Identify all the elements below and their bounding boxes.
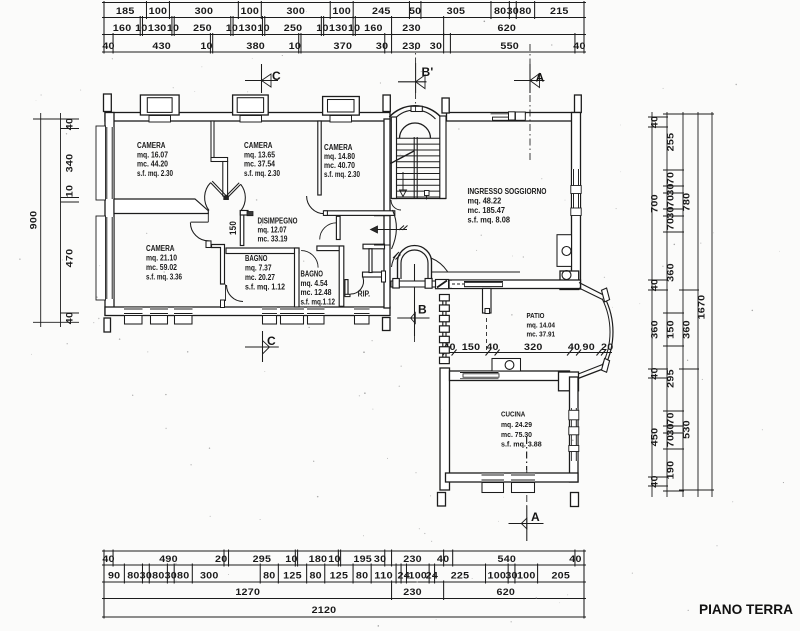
svg-text:10: 10 bbox=[257, 23, 269, 33]
svg-text:150: 150 bbox=[666, 320, 676, 339]
svg-text:mc. 59.02: mc. 59.02 bbox=[146, 263, 177, 272]
svg-text:C: C bbox=[267, 334, 276, 348]
left dim line 900 bbox=[40, 113, 42, 327]
door arc camera 21.10 bbox=[190, 223, 208, 241]
door leaf bagno 7.37 bbox=[225, 285, 227, 302]
stair side walls bbox=[391, 117, 396, 199]
entry axis line through arch bbox=[414, 264, 416, 302]
svg-text:1670: 1670 bbox=[697, 295, 707, 320]
door jamb camera 21.10 bbox=[206, 241, 211, 248]
right dim line bbox=[711, 112, 713, 497]
svg-text:185: 185 bbox=[116, 6, 135, 16]
svg-text:30: 30 bbox=[140, 571, 152, 581]
door arc bagno 7.37 bbox=[227, 285, 244, 302]
cucina top wall window bbox=[460, 372, 499, 381]
patio dashed boundary bbox=[486, 318, 488, 352]
svg-text:10: 10 bbox=[226, 23, 238, 33]
fence post bbox=[440, 357, 450, 363]
svg-text:BAGNO: BAGNO bbox=[301, 270, 324, 279]
tick bbox=[33, 118, 79, 120]
svg-text:30: 30 bbox=[165, 571, 177, 581]
svg-text:30: 30 bbox=[505, 571, 517, 581]
corridor right wall bbox=[240, 211, 244, 246]
svg-text:370: 370 bbox=[334, 41, 353, 51]
window sill cucina top bbox=[463, 374, 499, 377]
tick bbox=[61, 197, 80, 199]
door hinge post dark bbox=[224, 196, 229, 200]
cucina bottom wall window 1 bbox=[482, 474, 505, 482]
svg-text:130: 130 bbox=[329, 23, 348, 33]
fence post bbox=[440, 347, 450, 353]
svg-text:100: 100 bbox=[409, 571, 428, 581]
dimension line bottom bbox=[102, 616, 586, 618]
svg-text:24: 24 bbox=[426, 571, 438, 581]
svg-text:mq. 14.04: mq. 14.04 bbox=[527, 321, 556, 330]
svg-text:540: 540 bbox=[498, 554, 517, 564]
svg-text:40: 40 bbox=[568, 342, 580, 352]
slashes near arch left bbox=[393, 253, 398, 258]
cucina right exterior wall bbox=[570, 377, 579, 482]
entry axis arrow into disimpegno bbox=[371, 229, 407, 231]
svg-text:mq. 21.10: mq. 21.10 bbox=[146, 254, 177, 263]
mullion block bbox=[569, 427, 579, 435]
svg-text:30: 30 bbox=[374, 554, 386, 564]
interior wall: camera 16.07 / camera 13.65 divider bbox=[211, 121, 214, 159]
svg-text:80: 80 bbox=[177, 571, 189, 581]
svg-text:360: 360 bbox=[682, 320, 692, 339]
svg-text:90: 90 bbox=[108, 571, 120, 581]
svg-text:450: 450 bbox=[650, 428, 660, 447]
svg-text:360: 360 bbox=[666, 263, 676, 282]
fence post bbox=[440, 295, 450, 301]
svg-text:130: 130 bbox=[148, 23, 167, 33]
svg-text:70: 70 bbox=[666, 195, 676, 207]
svg-text:CAMERA: CAMERA bbox=[146, 244, 175, 253]
svg-text:B': B' bbox=[422, 65, 434, 79]
svg-text:230: 230 bbox=[402, 41, 421, 51]
ingresso bottom wall window bbox=[464, 281, 503, 289]
svg-text:205: 205 bbox=[551, 571, 570, 581]
svg-text:mc. 33.19: mc. 33.19 bbox=[258, 235, 288, 244]
top chain row 1: 185 100 300 100 300 100 245 50 305 80 30 80 215 bbox=[103, 1, 105, 19]
svg-text:100: 100 bbox=[149, 6, 168, 16]
cucina corner pillar bottom-left bbox=[438, 493, 446, 507]
dimension line top bbox=[102, 2, 586, 4]
svg-text:mq. 14.80: mq. 14.80 bbox=[324, 152, 355, 161]
svg-text:620: 620 bbox=[497, 587, 516, 597]
mullion block bbox=[569, 410, 579, 420]
patio curved glass wall bbox=[605, 297, 613, 367]
svg-text:A: A bbox=[536, 71, 545, 85]
window mullion block bbox=[571, 186, 581, 194]
top wall window 3 (bay) bbox=[323, 97, 360, 116]
door arc bagno 4.54 bbox=[301, 251, 318, 268]
svg-text:RIP.: RIP. bbox=[358, 290, 371, 299]
corner pillar bottom-right of left wing bbox=[383, 318, 391, 331]
fence post bbox=[440, 326, 450, 332]
svg-text:230: 230 bbox=[403, 554, 422, 564]
section marker C bbox=[261, 64, 263, 93]
entrance door jambs bbox=[374, 215, 391, 217]
bottom chain row 3: 1270 230 620 bbox=[103, 581, 105, 601]
svg-text:80: 80 bbox=[263, 571, 275, 581]
svg-text:40: 40 bbox=[65, 118, 75, 130]
double slash ticks on entry axis bbox=[399, 226, 404, 231]
svg-text:A: A bbox=[531, 510, 540, 524]
section marker A bbox=[526, 506, 528, 541]
corner pillar bottom-left bbox=[104, 318, 111, 332]
window mullion block bbox=[571, 208, 581, 216]
top chain row 3: 40 430 10 380 10 370 30 230 30 550 40 bbox=[103, 33, 105, 54]
entrance horseshoe arch outer bbox=[398, 246, 432, 280]
cucina bottom wall bbox=[446, 473, 579, 482]
corner pillar left of ingresso top wall bbox=[442, 98, 449, 113]
stair break line diagonal bbox=[391, 151, 415, 164]
svg-text:s.f. mq.1.12: s.f. mq.1.12 bbox=[301, 298, 336, 307]
svg-text:295: 295 bbox=[253, 554, 272, 564]
porch pillar 1 bbox=[393, 279, 400, 289]
patio dimension line: 40 150 40 320 40 90 20 bbox=[443, 352, 612, 354]
dimension line top bbox=[102, 17, 586, 19]
entrance door swing arc bbox=[392, 210, 397, 249]
closet hall top wall bbox=[363, 244, 385, 249]
stair outer arch bbox=[389, 106, 441, 117]
closet divider wall bbox=[369, 249, 372, 273]
svg-text:80: 80 bbox=[127, 571, 139, 581]
svg-text:70: 70 bbox=[666, 435, 676, 447]
svg-text:70: 70 bbox=[666, 218, 676, 230]
svg-text:380: 380 bbox=[246, 41, 265, 51]
svg-text:s.f. mq. 2.30: s.f. mq. 2.30 bbox=[324, 170, 360, 179]
svg-text:CAMERA: CAMERA bbox=[244, 141, 273, 150]
svg-text:mc. 44.20: mc. 44.20 bbox=[137, 160, 168, 169]
svg-text:40: 40 bbox=[650, 475, 660, 487]
section marker A bbox=[529, 64, 531, 93]
svg-text:430: 430 bbox=[152, 41, 171, 51]
svg-text:700: 700 bbox=[650, 194, 660, 213]
tick bbox=[61, 201, 80, 203]
corner pillar top-right of left wing bbox=[383, 95, 390, 112]
svg-text:225: 225 bbox=[451, 571, 470, 581]
disimpegno/hall wall with door bbox=[336, 216, 340, 239]
window sill left B bbox=[96, 216, 106, 300]
double door arcs bbox=[205, 183, 211, 211]
cucina top wall bbox=[450, 371, 570, 381]
svg-text:230: 230 bbox=[403, 587, 422, 597]
stair direction arrow (open) bbox=[400, 190, 407, 197]
left wing: right exterior wall bbox=[384, 119, 390, 308]
interior wall: camera 13.65 / camera 14.80 divider bbox=[318, 121, 321, 195]
svg-text:550: 550 bbox=[500, 41, 519, 51]
svg-text:CAMERA: CAMERA bbox=[324, 143, 353, 152]
svg-text:100: 100 bbox=[332, 6, 351, 16]
bagno 7.37 right wall / bagno 4.54 left wall bbox=[295, 248, 300, 307]
corner pillar top-right of ingresso bbox=[575, 95, 582, 113]
svg-text:30: 30 bbox=[507, 6, 519, 16]
counter box with sink circle bbox=[492, 359, 521, 372]
svg-text:mq. 12.07: mq. 12.07 bbox=[258, 226, 287, 235]
arch keystone block bbox=[411, 106, 422, 111]
svg-text:110: 110 bbox=[374, 571, 393, 581]
arch sketch flourish bbox=[431, 258, 448, 272]
svg-text:40: 40 bbox=[486, 342, 498, 352]
section marker B' bbox=[415, 63, 417, 93]
svg-text:mc. 12.48: mc. 12.48 bbox=[301, 288, 332, 297]
section line A vertical dash-dot top bbox=[529, 95, 531, 160]
fence post bbox=[440, 305, 450, 311]
under-stair door arc bbox=[391, 200, 401, 210]
svg-text:190: 190 bbox=[666, 461, 676, 480]
bottom chain row 1: 40 490 20 295 10 180 10 195 30 230 40 540 40 bbox=[103, 550, 105, 567]
svg-text:470: 470 bbox=[65, 249, 75, 268]
porch corner post with diagonal bbox=[436, 280, 449, 289]
dimension line top bbox=[102, 51, 586, 53]
porch left wall stub bbox=[382, 271, 386, 282]
svg-text:245: 245 bbox=[372, 6, 391, 16]
step line in ingresso bbox=[432, 271, 520, 273]
svg-text:mc. 75.30: mc. 75.30 bbox=[501, 430, 532, 439]
door arc rip bbox=[351, 278, 364, 295]
svg-text:125: 125 bbox=[283, 571, 302, 581]
svg-text:195: 195 bbox=[353, 554, 372, 564]
corridor left wall / bagno 7.37 left wall bbox=[212, 245, 225, 285]
svg-text:s.f. mq. 2.30: s.f. mq. 2.30 bbox=[137, 169, 173, 178]
svg-text:PIANO TERRA: PIANO TERRA bbox=[699, 601, 793, 617]
svg-text:2120: 2120 bbox=[312, 605, 337, 615]
right chain B: 255 70 30 70 30 70 360 150 295 70 30 70 190 bbox=[663, 113, 684, 115]
right chain A: 40 700 40 360 40 450 40 bbox=[648, 116, 668, 118]
svg-text:80: 80 bbox=[494, 6, 506, 16]
svg-text:s.f. mq. 2.30: s.f. mq. 2.30 bbox=[244, 169, 280, 178]
left dim line inner bbox=[60, 113, 62, 327]
svg-text:150: 150 bbox=[228, 221, 238, 235]
svg-text:30: 30 bbox=[666, 423, 676, 435]
door notch edge bbox=[207, 214, 209, 223]
svg-text:30: 30 bbox=[376, 41, 388, 51]
svg-text:mq. 48.22: mq. 48.22 bbox=[468, 197, 502, 206]
svg-text:180: 180 bbox=[309, 554, 328, 564]
section line B dash-dot at stair bbox=[415, 93, 417, 112]
svg-text:mq. 16.07: mq. 16.07 bbox=[137, 151, 168, 160]
svg-text:100: 100 bbox=[488, 571, 507, 581]
svg-text:300: 300 bbox=[286, 6, 305, 16]
svg-text:mc. 20.27: mc. 20.27 bbox=[245, 273, 275, 282]
svg-text:780: 780 bbox=[682, 193, 692, 212]
svg-text:s.f. mq. 3.88: s.f. mq. 3.88 bbox=[501, 440, 542, 449]
svg-text:10: 10 bbox=[328, 554, 340, 564]
interior wall: camera 16.07 / camera 21.10 divider bbox=[114, 199, 208, 214]
svg-text:900: 900 bbox=[29, 211, 39, 230]
svg-text:80: 80 bbox=[309, 571, 321, 581]
curved wall bottom connector bbox=[578, 368, 606, 379]
svg-text:90: 90 bbox=[583, 342, 595, 352]
double door at corridor top: leaves bbox=[211, 183, 225, 198]
threshold block dark bbox=[247, 212, 253, 216]
entrance horseshoe arch inner bbox=[401, 250, 428, 279]
svg-text:530: 530 bbox=[682, 420, 692, 439]
door arc hall bbox=[320, 223, 337, 240]
top wall window 2 (bay) bbox=[233, 95, 269, 115]
window sill bbox=[465, 283, 503, 287]
svg-text:40: 40 bbox=[102, 554, 114, 564]
svg-text:40: 40 bbox=[569, 554, 581, 564]
left wing: bottom exterior wall bbox=[105, 307, 390, 316]
svg-text:40: 40 bbox=[650, 116, 660, 128]
svg-text:1270: 1270 bbox=[235, 587, 260, 597]
fence post bbox=[440, 336, 450, 342]
cucina corner pillar bottom-right bbox=[571, 493, 579, 507]
window sill left A bbox=[96, 126, 106, 200]
svg-text:PATIO: PATIO bbox=[527, 311, 545, 320]
svg-text:30: 30 bbox=[666, 206, 676, 218]
left wing: top exterior wall bbox=[105, 113, 390, 122]
section marker B bbox=[414, 302, 416, 336]
svg-text:230: 230 bbox=[402, 23, 421, 33]
right chain C: 780 360 530 bbox=[679, 113, 699, 115]
svg-text:490: 490 bbox=[159, 554, 178, 564]
cucina bottom wall window 2 bbox=[511, 474, 535, 482]
patio left wall finger below ingresso bbox=[483, 289, 492, 314]
curved wall end block bottom bbox=[602, 358, 610, 372]
svg-text:10: 10 bbox=[289, 41, 301, 51]
svg-text:250: 250 bbox=[284, 23, 303, 33]
svg-text:320: 320 bbox=[524, 342, 543, 352]
svg-text:300: 300 bbox=[200, 571, 219, 581]
window mullion block bbox=[515, 112, 525, 120]
svg-text:50: 50 bbox=[409, 6, 421, 16]
svg-text:30: 30 bbox=[666, 183, 676, 195]
svg-text:10: 10 bbox=[135, 23, 147, 33]
bagno 4.54 top wall bbox=[317, 246, 343, 251]
svg-text:40: 40 bbox=[573, 41, 585, 51]
tick bbox=[33, 321, 79, 323]
bottom wall windows of left wing bbox=[124, 308, 143, 316]
stair bottom edge bbox=[391, 198, 446, 200]
dimension line bottom bbox=[102, 581, 586, 583]
right dim line bbox=[651, 112, 653, 497]
porch bottom wall bbox=[391, 281, 452, 287]
column circle at wall corner bbox=[562, 271, 571, 280]
svg-text:10: 10 bbox=[167, 23, 179, 33]
svg-text:mc. 37.54: mc. 37.54 bbox=[244, 160, 275, 169]
svg-text:40: 40 bbox=[65, 312, 75, 324]
right dim line bbox=[666, 112, 668, 497]
svg-text:mq. 13.65: mq. 13.65 bbox=[244, 151, 275, 160]
top wall window 1 (bay) bbox=[140, 95, 179, 115]
bagno 4.54 right wall bbox=[339, 246, 344, 306]
cucina top-right corner block bbox=[559, 372, 579, 391]
top chain row 2: 160 10 130 10 250 10 130 10 250 10 130 10 160 230 620 bbox=[103, 16, 105, 36]
svg-text:295: 295 bbox=[666, 369, 676, 388]
right dim line bbox=[697, 112, 699, 497]
svg-text:mc. 40.70: mc. 40.70 bbox=[324, 161, 355, 170]
corner pillar top-left bbox=[104, 94, 112, 112]
svg-text:215: 215 bbox=[550, 6, 569, 16]
svg-text:DISIMPEGNO: DISIMPEGNO bbox=[258, 217, 298, 226]
svg-text:125: 125 bbox=[330, 571, 349, 581]
tick bbox=[61, 128, 80, 130]
svg-text:30: 30 bbox=[430, 41, 442, 51]
svg-text:mq. 7.37: mq. 7.37 bbox=[245, 264, 272, 273]
svg-text:100: 100 bbox=[517, 571, 536, 581]
bottom chain row 4: 2120 bbox=[103, 597, 105, 619]
svg-text:20: 20 bbox=[215, 554, 227, 564]
svg-text:70: 70 bbox=[666, 172, 676, 184]
svg-text:305: 305 bbox=[447, 6, 466, 16]
camera 14.80 bottom wall / disimpegno top bbox=[324, 211, 395, 216]
svg-text:300: 300 bbox=[195, 6, 214, 16]
svg-text:80: 80 bbox=[519, 6, 531, 16]
stair inner arch bbox=[400, 123, 431, 139]
svg-text:40: 40 bbox=[102, 41, 114, 51]
fireplace circle bbox=[562, 247, 571, 256]
svg-text:10: 10 bbox=[285, 554, 297, 564]
svg-text:s.f. mq. 3.36: s.f. mq. 3.36 bbox=[146, 273, 182, 282]
bottom chain row 2: 90 80 30 80 30 80 300 80 125 80 125 80 110 22 24 100 24 225 100 30 100 205 bbox=[103, 564, 105, 584]
svg-text:C: C bbox=[272, 69, 281, 83]
svg-text:10: 10 bbox=[65, 185, 75, 197]
right dim line bbox=[682, 112, 684, 497]
curved wall end block top bbox=[602, 288, 610, 302]
section line A vertical dash-dot bottom bbox=[526, 437, 528, 506]
ingresso right wall window bbox=[572, 169, 580, 216]
mullion block bbox=[569, 446, 579, 452]
window sill ingresso top bbox=[493, 117, 509, 120]
svg-text:250: 250 bbox=[193, 23, 212, 33]
cucina left exterior wall bbox=[440, 368, 450, 490]
ingresso right exterior wall bbox=[572, 113, 581, 290]
rip top wall bbox=[363, 272, 385, 277]
svg-text:80: 80 bbox=[152, 571, 164, 581]
svg-text:s.f. mq. 1.12: s.f. mq. 1.12 bbox=[245, 283, 285, 292]
svg-text:10: 10 bbox=[348, 23, 360, 33]
svg-text:s.f. mq. 8.08: s.f. mq. 8.08 bbox=[468, 216, 511, 225]
svg-text:mq. 4.54: mq. 4.54 bbox=[301, 279, 328, 288]
svg-text:130: 130 bbox=[238, 23, 257, 33]
fence post bbox=[440, 315, 450, 321]
bagno 7.37 top wall bbox=[226, 248, 299, 254]
small landing mark bbox=[425, 191, 430, 196]
tick bbox=[61, 312, 80, 314]
svg-text:340: 340 bbox=[65, 154, 75, 173]
dimension line bottom bbox=[102, 564, 586, 566]
ingresso bottom wall bbox=[449, 280, 581, 289]
svg-text:10: 10 bbox=[316, 23, 328, 33]
section marker C bbox=[262, 331, 264, 362]
svg-text:620: 620 bbox=[498, 23, 517, 33]
cucina right wall window bbox=[570, 408, 578, 461]
rip left wall bbox=[345, 280, 348, 296]
svg-text:100: 100 bbox=[241, 6, 260, 16]
curved wall top connector bbox=[579, 283, 606, 297]
left wing: left exterior wall bbox=[105, 113, 114, 316]
porch pillar 2 bbox=[425, 279, 432, 289]
dimension line bottom bbox=[102, 598, 586, 600]
fireplace box on right wall bbox=[557, 235, 572, 267]
svg-text:360: 360 bbox=[650, 320, 660, 339]
ingresso bottom-right corner block bbox=[560, 271, 579, 290]
stair center divider bbox=[413, 137, 415, 199]
svg-text:CUCINA: CUCINA bbox=[501, 410, 526, 419]
right chain D: 1670 bbox=[694, 113, 714, 115]
section line A dash-dot in cucina bbox=[526, 437, 528, 470]
svg-text:mc. 37.91: mc. 37.91 bbox=[527, 330, 556, 339]
dimension line bottom bbox=[102, 550, 586, 552]
svg-text:160: 160 bbox=[364, 23, 383, 33]
svg-text:mq. 24.29: mq. 24.29 bbox=[501, 420, 532, 429]
ingresso top wall bbox=[447, 113, 577, 122]
svg-text:BAGNO: BAGNO bbox=[245, 254, 268, 263]
